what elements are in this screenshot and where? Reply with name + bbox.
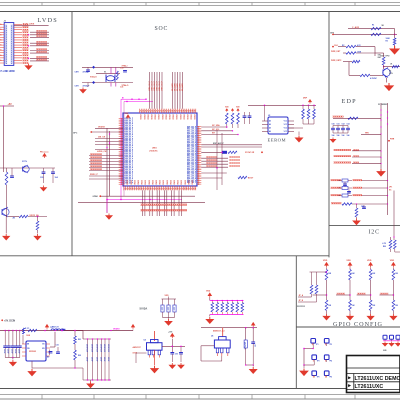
svg-text:EEROM: EEROM xyxy=(268,138,287,143)
divider GPIO bottom horizontal xyxy=(296,326,400,328)
regulator U5 body xyxy=(214,340,230,348)
svg-text:LVDS_D0_P: LVDS_D0_P xyxy=(124,140,134,142)
capacitor C20 xyxy=(42,172,46,173)
svg-text:LVDS_D0_P: LVDS_D0_P xyxy=(124,155,134,157)
svg-text:C62: C62 xyxy=(342,124,345,126)
crystal circuit wire bottom xyxy=(82,82,133,84)
wires chip right rows EDP TX xyxy=(201,157,228,159)
wire transistor collector xyxy=(6,208,8,217)
svg-text:C63: C63 xyxy=(347,124,350,126)
svg-text:EDP_TX0_P: EDP_TX0_P xyxy=(187,135,197,137)
EEPROM U2 body xyxy=(268,117,288,134)
wire vertical into transistor xyxy=(383,65,385,69)
svg-text:VDDIO: VDDIO xyxy=(113,328,120,330)
svg-text:LVDS_D0_P: LVDS_D0_P xyxy=(124,126,134,128)
node dots on VCC bus xyxy=(264,105,265,106)
svg-text:LVDS: LVDS xyxy=(38,17,58,24)
svg-text:EDP_TX0_P: EDP_TX0_P xyxy=(187,173,197,175)
resistor R60 xyxy=(348,117,358,119)
GPIO chain 1 junction dot xyxy=(326,294,327,295)
svg-text:LVDS_D0_P: LVDS_D0_P xyxy=(124,142,134,144)
regulator U5 left wire loop xyxy=(201,345,214,347)
svg-text:BOOT: BOOT xyxy=(248,178,254,180)
title block inner line 4 xyxy=(347,389,400,391)
svg-text:GNDD: GNDD xyxy=(160,179,162,185)
svg-text:220UF/6.3V: 220UF/6.3V xyxy=(95,344,97,352)
svg-text:LT2611UXC DEMO: LT2611UXC DEMO xyxy=(355,376,400,382)
svg-text:LVDS_D0_P: LVDS_D0_P xyxy=(124,124,134,126)
power arrow VDD_5V on input bus xyxy=(45,325,48,329)
output arrow stem xyxy=(171,339,173,352)
svg-text:EDP_TX0_P: EDP_TX0_P xyxy=(187,146,197,148)
GPIO chain 1 net stub xyxy=(313,294,327,296)
svg-text:C9H: C9H xyxy=(75,86,80,88)
resistor R56 vertical xyxy=(382,57,385,65)
GPIO chain 2 lower resistor R81 xyxy=(349,300,352,311)
regulator U4 left wire loop xyxy=(136,352,147,354)
VDD pullup arrow near chip top-left xyxy=(126,115,129,119)
GPIO chain 3 power arrow xyxy=(369,263,373,268)
bus verticals right of chip xyxy=(216,130,218,190)
wire vertical right EDP xyxy=(394,29,396,38)
LVDS pair wires group4 xyxy=(30,57,49,59)
svg-text:VDD33: VDD33 xyxy=(157,114,159,119)
svg-text:EDP_TX0_P: EDP_TX0_P xyxy=(187,162,197,164)
SOC chip U1 outside top pin-number band xyxy=(139,110,196,112)
wire right vertical to I2C xyxy=(393,191,395,238)
crystal vertical connection left xyxy=(110,67,112,74)
wire left row 149 xyxy=(95,149,123,151)
output capacitor bank xyxy=(87,339,89,380)
svg-text:GPC: GPC xyxy=(73,132,78,134)
junction dots on magenta bottom xyxy=(106,199,107,200)
svg-text:10UF: 10UF xyxy=(167,307,169,311)
svg-text:XX_SERIES: XX_SERIES xyxy=(378,104,388,106)
regulator U5 power arrow top right xyxy=(251,323,254,328)
svg-text:+5V_DCIN: +5V_DCIN xyxy=(4,320,15,322)
svg-text:R1: R1 xyxy=(372,25,374,27)
svg-text:LVDS_D0_P: LVDS_D0_P xyxy=(124,135,134,137)
svg-text:EDP_TX0_P: EDP_TX0_P xyxy=(187,137,197,139)
svg-text:10UF: 10UF xyxy=(161,307,163,311)
resistor R51 horizontal xyxy=(371,33,381,35)
bus loop magenta top horizontal 2 xyxy=(124,101,153,103)
cap group bottom bus xyxy=(163,317,175,319)
resistor array RN1 ground xyxy=(209,315,211,317)
svg-text:220UF: 220UF xyxy=(85,357,87,362)
svg-text:VDD: VDD xyxy=(367,260,372,262)
svg-text:220UF: 220UF xyxy=(3,349,5,354)
svg-text:AMS1117: AMS1117 xyxy=(133,346,141,349)
resistor array RN1 resistors xyxy=(211,301,213,303)
svg-text:EDP_HPD: EDP_HPD xyxy=(381,55,391,57)
svg-text:EDP_TX0_P: EDP_TX0_P xyxy=(187,128,197,130)
svg-text:VDD33: VDD33 xyxy=(143,114,145,119)
svg-text:EDP_TX0_P: EDP_TX0_P xyxy=(187,155,197,157)
svg-text:VDD: VDD xyxy=(346,260,351,262)
svg-text:JP_A: JP_A xyxy=(299,294,304,297)
wire i2c exits right xyxy=(395,251,400,253)
wires chip right lower rows xyxy=(201,172,227,174)
svg-text:VDD: VDD xyxy=(390,260,395,262)
svg-text:EDP_AUX_P: EDP_AUX_P xyxy=(213,142,224,145)
svg-text:LVDS_D0_P: LVDS_D0_P xyxy=(124,157,134,159)
caps between cluster3 rows xyxy=(344,182,346,187)
test point TP2 xyxy=(324,339,329,344)
svg-text:VDD33: VDD33 xyxy=(161,114,163,119)
svg-text:LVDS_D0_P: LVDS_D0_P xyxy=(124,122,134,124)
right test point ground arrows xyxy=(382,342,387,347)
GPIO chain 4 junction dot xyxy=(393,294,394,295)
GPIO chain 1 upper resistor R70 xyxy=(326,268,328,270)
output bottom bus xyxy=(32,367,83,369)
svg-text:JP_B: JP_B xyxy=(299,300,304,302)
svg-text:VDD33: VDD33 xyxy=(154,114,156,119)
EEPROM U2 pin stubs left xyxy=(262,120,268,122)
regulator U5 center leg wire xyxy=(221,356,223,361)
sheet border outer top line xyxy=(0,2,400,4)
svg-text:EDP_TX0_P: EDP_TX0_P xyxy=(187,143,197,145)
title block inner line 1 xyxy=(347,367,400,369)
wire row with series resistor xyxy=(201,151,222,153)
wire chip bottom bus 1 xyxy=(100,195,195,197)
regulator U4 output wire xyxy=(162,345,185,347)
GPIO chain 4 power arrow xyxy=(392,263,396,268)
cap on row4 xyxy=(363,205,365,209)
labels below chip band row1 xyxy=(141,204,188,206)
SOC chip U1 outside right pin-number band xyxy=(198,126,200,185)
capacitor C41 right group xyxy=(248,116,252,117)
svg-text:LVDS_D0_P: LVDS_D0_P xyxy=(124,131,134,133)
svg-text:EDP_TX0_P: EDP_TX0_P xyxy=(187,161,197,163)
regulator U4 ground arrow xyxy=(151,366,158,373)
GPIO chain 2 ground xyxy=(347,314,353,320)
capacitor C22 left xyxy=(10,176,14,177)
svg-text:LVDS_D0_P: LVDS_D0_P xyxy=(124,151,134,153)
svg-text:X1: X1 xyxy=(104,72,106,74)
svg-text:220UF: 220UF xyxy=(103,357,105,362)
divider SOC/EDP vertical xyxy=(328,12,330,258)
ground below Q1 xyxy=(386,78,388,83)
svg-text:C8H: C8H xyxy=(75,71,80,73)
wire EN pullup xyxy=(22,335,24,344)
GPIO chain 2 net stub xyxy=(336,294,350,296)
svg-text:GNDD: GNDD xyxy=(131,179,133,185)
resistor array RN1 top bus xyxy=(209,298,211,301)
svg-text:LVDS_D0_P: LVDS_D0_P xyxy=(124,118,134,120)
svg-text:VDD33: VDD33 xyxy=(139,114,141,119)
svg-text:LVDS_D0_P: LVDS_D0_P xyxy=(124,171,134,173)
wire EDP top row1 xyxy=(348,28,395,30)
svg-text:EDP_TX0_P: EDP_TX0_P xyxy=(187,132,197,134)
resistor R20 parallel to crystal xyxy=(116,71,118,80)
EEPROM pullup resistors xyxy=(302,105,304,109)
divider power/GPIO vertical xyxy=(295,256,297,389)
wire edp caps bus xyxy=(333,125,348,127)
svg-text:VIN: VIN xyxy=(27,348,30,350)
magenta dot i2c xyxy=(393,236,394,237)
svg-text:GNDD: GNDD xyxy=(142,179,144,185)
cap group top bus xyxy=(162,298,177,300)
resistor R16 horizontal xyxy=(19,215,28,217)
ground below Q11 xyxy=(5,216,7,234)
label VDD on vcc bus xyxy=(308,100,311,104)
svg-text:R2: R2 xyxy=(386,41,388,43)
test point row3 stubs xyxy=(313,376,315,378)
test point TP6 xyxy=(324,371,329,376)
transistor Q10 symbol xyxy=(23,166,29,172)
svg-text:TP5: TP5 xyxy=(317,377,320,379)
junction dots on LVDS rows xyxy=(28,34,29,35)
resistor R54 xyxy=(346,52,356,54)
svg-text:LVDS_D0_P: LVDS_D0_P xyxy=(124,160,134,162)
junction dots right bus xyxy=(221,152,222,153)
svg-text:P_5V_LVDS: P_5V_LVDS xyxy=(23,24,35,26)
power input label +5V_DCIN xyxy=(1,319,3,321)
node GND_PAD red dot xyxy=(99,195,101,197)
regulator U5 input red vertical xyxy=(222,328,224,337)
svg-text:220UF: 220UF xyxy=(107,357,109,362)
svg-text:R90: R90 xyxy=(383,246,386,248)
LVDS pair wires group3 xyxy=(30,50,49,52)
test point TP4 xyxy=(324,355,329,360)
svg-text:XXXXXXX: XXXXXXX xyxy=(297,306,306,308)
connector J1 LVDS receptacle body xyxy=(4,23,14,66)
svg-text:I2S_DAT0: I2S_DAT0 xyxy=(181,83,184,91)
wire EDP mid rowA xyxy=(338,46,346,48)
wire LVDS shield xyxy=(14,24,49,26)
svg-text:104: 104 xyxy=(332,134,335,137)
bus loop magenta left vertical 2 xyxy=(123,102,125,197)
input caps junction dots bottom xyxy=(12,357,13,358)
capacitor stub C8H xyxy=(87,67,89,72)
GPIO chain1 stub wires xyxy=(298,296,312,298)
resistor R15 vertical xyxy=(6,168,8,172)
crystal circuit wire top xyxy=(82,66,133,68)
LVDS lower bias network wires xyxy=(0,167,55,169)
svg-text:EDP_TX0_P: EDP_TX0_P xyxy=(187,150,197,152)
svg-text:XR76205: XR76205 xyxy=(29,351,36,353)
resistor R52 vertical xyxy=(393,38,396,45)
svg-text:LVDS_D0_P: LVDS_D0_P xyxy=(124,133,134,135)
svg-text:LVDS_D0_P: LVDS_D0_P xyxy=(124,129,134,131)
GPIO chain 3 upper resistor R72 xyxy=(370,268,372,270)
svg-text:10UF: 10UF xyxy=(173,307,175,311)
svg-text:LT2611UXC: LT2611UXC xyxy=(149,151,158,153)
svg-text:BS: BS xyxy=(47,357,49,359)
resistor R58 base xyxy=(360,74,370,76)
wires chip left LVDS rows xyxy=(89,155,123,157)
svg-text:LVDS_D0_P: LVDS_D0_P xyxy=(124,175,134,177)
wire edp row vcc xyxy=(333,117,381,119)
wire vertical x375 down xyxy=(374,53,376,56)
wire EDP mid rowB xyxy=(343,52,346,54)
svg-text:RXD3_P: RXD3_P xyxy=(90,174,98,176)
svg-text:VDD33: VDD33 xyxy=(164,114,166,119)
regulator U5 tab xyxy=(219,337,227,340)
test point TP3 xyxy=(312,355,317,360)
bus vertical magenta below chip xyxy=(106,200,108,213)
svg-text:LVDS_D0_P: LVDS_D0_P xyxy=(124,127,134,129)
svg-text:VDD: VDD xyxy=(323,260,328,262)
svg-text:PWR_DET2: PWR_DET2 xyxy=(331,60,341,62)
SOC chip U1 right pin stubs xyxy=(197,126,201,128)
svg-text:220UF: 220UF xyxy=(14,349,16,354)
resistor R17 vertical xyxy=(36,221,39,230)
svg-text:C90: C90 xyxy=(175,354,178,356)
svg-text:220UF/6.3V: 220UF/6.3V xyxy=(103,344,105,352)
svg-text:VDD18: VDD18 xyxy=(98,126,106,128)
junction diamond bottom xyxy=(92,81,95,84)
diode D1 mark xyxy=(62,329,65,331)
svg-text:LVDS_D0_P: LVDS_D0_P xyxy=(124,166,134,168)
ground edp bottom xyxy=(356,217,358,219)
bus loop magenta top horizontal xyxy=(121,98,146,100)
regulator U5 legs xyxy=(216,348,218,353)
bus loop magenta bottom horizontal xyxy=(107,199,182,201)
junction dot row2 xyxy=(394,34,395,35)
resistor array RN1 power arrow xyxy=(208,293,211,298)
svg-text:GPIO CONFIG: GPIO CONFIG xyxy=(333,321,383,328)
wire EDP mid rowC xyxy=(343,61,352,63)
junction dots on magenta top xyxy=(131,99,132,100)
resistor array RN1 bottom bus xyxy=(210,314,244,316)
GPIO chain 3 lower resistor R82 xyxy=(369,300,372,311)
test point wiring row1 xyxy=(304,348,313,350)
wire i2c bottom stubs xyxy=(390,249,392,252)
svg-text:LVDS_D0_P: LVDS_D0_P xyxy=(124,138,134,140)
wires chip top group2 vertical xyxy=(172,72,174,109)
svg-text:EDP_TX0_P: EDP_TX0_P xyxy=(187,157,197,159)
title block outer border xyxy=(347,356,400,393)
EEPROM U2 pin stubs right xyxy=(288,120,294,122)
svg-text:GNDD: GNDD xyxy=(149,179,151,185)
transistor Q11 xyxy=(2,208,9,215)
cap C51 mid xyxy=(57,347,59,352)
svg-text:VDD33: VDD33 xyxy=(193,114,195,119)
wire I2C SCL row xyxy=(201,130,232,132)
I2C pullup resistor RA xyxy=(390,237,392,240)
junction dots on input bus xyxy=(5,330,6,331)
svg-text:PD-Cxxx: PD-Cxxx xyxy=(40,151,49,153)
wire Q11 output row xyxy=(8,216,19,218)
svg-text:EDP_TX0_P: EDP_TX0_P xyxy=(187,170,197,172)
junction dot HPD xyxy=(383,66,384,67)
svg-text:EDP_TX0_P: EDP_TX0_P xyxy=(187,134,197,136)
svg-text:GPAD: GPAD xyxy=(93,195,99,198)
divider EDP/I2C horizontal xyxy=(329,225,400,227)
svg-text:EDP_TX0_P: EDP_TX0_P xyxy=(187,177,197,179)
svg-text:LVDS_D0_P: LVDS_D0_P xyxy=(124,144,134,146)
svg-text:LVDS_D0_P: LVDS_D0_P xyxy=(124,147,134,149)
svg-text:EDP_TX0_P: EDP_TX0_P xyxy=(187,144,197,146)
svg-text:4.7K/NC: 4.7K/NC xyxy=(370,77,378,80)
svg-text:EDP_TX0_P: EDP_TX0_P xyxy=(187,152,197,154)
svg-text:LVDS_D0_P: LVDS_D0_P xyxy=(124,149,134,151)
ground EDP right xyxy=(394,45,396,46)
connector J1 inner pin name bands xyxy=(5,25,7,65)
svg-text:R62: R62 xyxy=(78,355,81,357)
resistor R57 right edge xyxy=(392,65,399,67)
labels right rows red xyxy=(229,156,240,158)
wire chip bottom bus 2 xyxy=(78,202,205,204)
title block arrow row2 xyxy=(348,384,351,386)
GPIO chain1 aux resistors xyxy=(310,271,327,273)
svg-text:TP3: TP3 xyxy=(317,361,320,363)
wire I2C SDA row xyxy=(201,126,227,128)
svg-text:C_AUX: C_AUX xyxy=(352,26,360,29)
wires chip left bottom rows xyxy=(89,175,123,177)
svg-text:JP1: JP1 xyxy=(389,187,392,189)
wire rowC loop to base xyxy=(348,62,350,76)
svg-text:I2S_CK: I2S_CK xyxy=(98,137,106,139)
svg-text:R61: R61 xyxy=(78,339,81,341)
capacitor C21 xyxy=(51,172,55,173)
resistor R45 horizontal lower xyxy=(238,176,247,178)
svg-text:220UF/6.3V: 220UF/6.3V xyxy=(244,342,246,349)
vertical connecting rows ABC xyxy=(374,47,376,53)
svg-text:220UF: 220UF xyxy=(11,349,13,354)
svg-text:EDP: EDP xyxy=(342,98,357,105)
SOC chip U1 bottom pin stubs xyxy=(123,186,125,190)
ground below connector J1 xyxy=(25,64,31,70)
wires edp rows cluster2 xyxy=(352,150,381,152)
wires EDP AUX rows xyxy=(201,144,262,146)
svg-text:C31: C31 xyxy=(120,87,123,89)
svg-text:LVDS_CK: LVDS_CK xyxy=(97,151,107,153)
wires chip left group A xyxy=(95,127,123,129)
svg-text:220UF/6.3V: 220UF/6.3V xyxy=(100,344,102,352)
crystal vertical connection right xyxy=(115,67,117,74)
ground crystal xyxy=(80,88,86,93)
svg-text:VDD33: VDD33 xyxy=(150,114,152,119)
SOC chip U1 body xyxy=(123,113,197,186)
pullup resistor group R30-R33 tops xyxy=(226,109,229,112)
right test point squares xyxy=(383,335,387,339)
wire inductor output bus xyxy=(64,330,133,332)
svg-text:+1V8: +1V8 xyxy=(168,331,172,333)
GPIO chain 3 junction dot xyxy=(370,294,371,295)
svg-text:EDP_TX0_P: EDP_TX0_P xyxy=(187,175,197,177)
wire HPD to right xyxy=(384,66,400,68)
svg-text:220UF: 220UF xyxy=(100,357,102,362)
svg-text:XTALO: XTALO xyxy=(90,76,97,79)
svg-text:PWR: PWR xyxy=(390,139,395,141)
svg-text:LVDS_CK_P: LVDS_CK_P xyxy=(162,80,164,91)
svg-text:XX NC 0R: XX NC 0R xyxy=(245,152,255,154)
crystal circuit wire mid xyxy=(96,72,120,74)
output caps top bus xyxy=(83,338,111,340)
output caps bottom bus xyxy=(88,379,112,381)
svg-text:104: 104 xyxy=(342,134,345,137)
svg-text:C20: C20 xyxy=(40,177,43,179)
svg-text:GNDD: GNDD xyxy=(167,179,169,185)
ground edp caps xyxy=(330,138,335,143)
svg-text:C61: C61 xyxy=(337,124,340,126)
svg-text:VDD33: VDD33 xyxy=(146,114,148,119)
GPIO chain 2 power arrow xyxy=(348,263,352,268)
svg-text:LVDS_D0_P: LVDS_D0_P xyxy=(124,146,134,148)
svg-text:VDD33: VDD33 xyxy=(190,114,192,119)
divider horizontal y=256 xyxy=(0,255,329,257)
SOC chip U1 outside left pin-number band xyxy=(121,118,123,185)
svg-text:VDD33: VDD33 xyxy=(168,114,170,119)
svg-text:XXTL: XXTL xyxy=(22,161,28,163)
svg-text:SOC: SOC xyxy=(155,26,169,32)
svg-text:L1 4.7uH: L1 4.7uH xyxy=(51,326,59,329)
GPIO chain 2 upper resistor R71 xyxy=(349,268,351,270)
svg-text:I2C: I2C xyxy=(369,230,380,236)
